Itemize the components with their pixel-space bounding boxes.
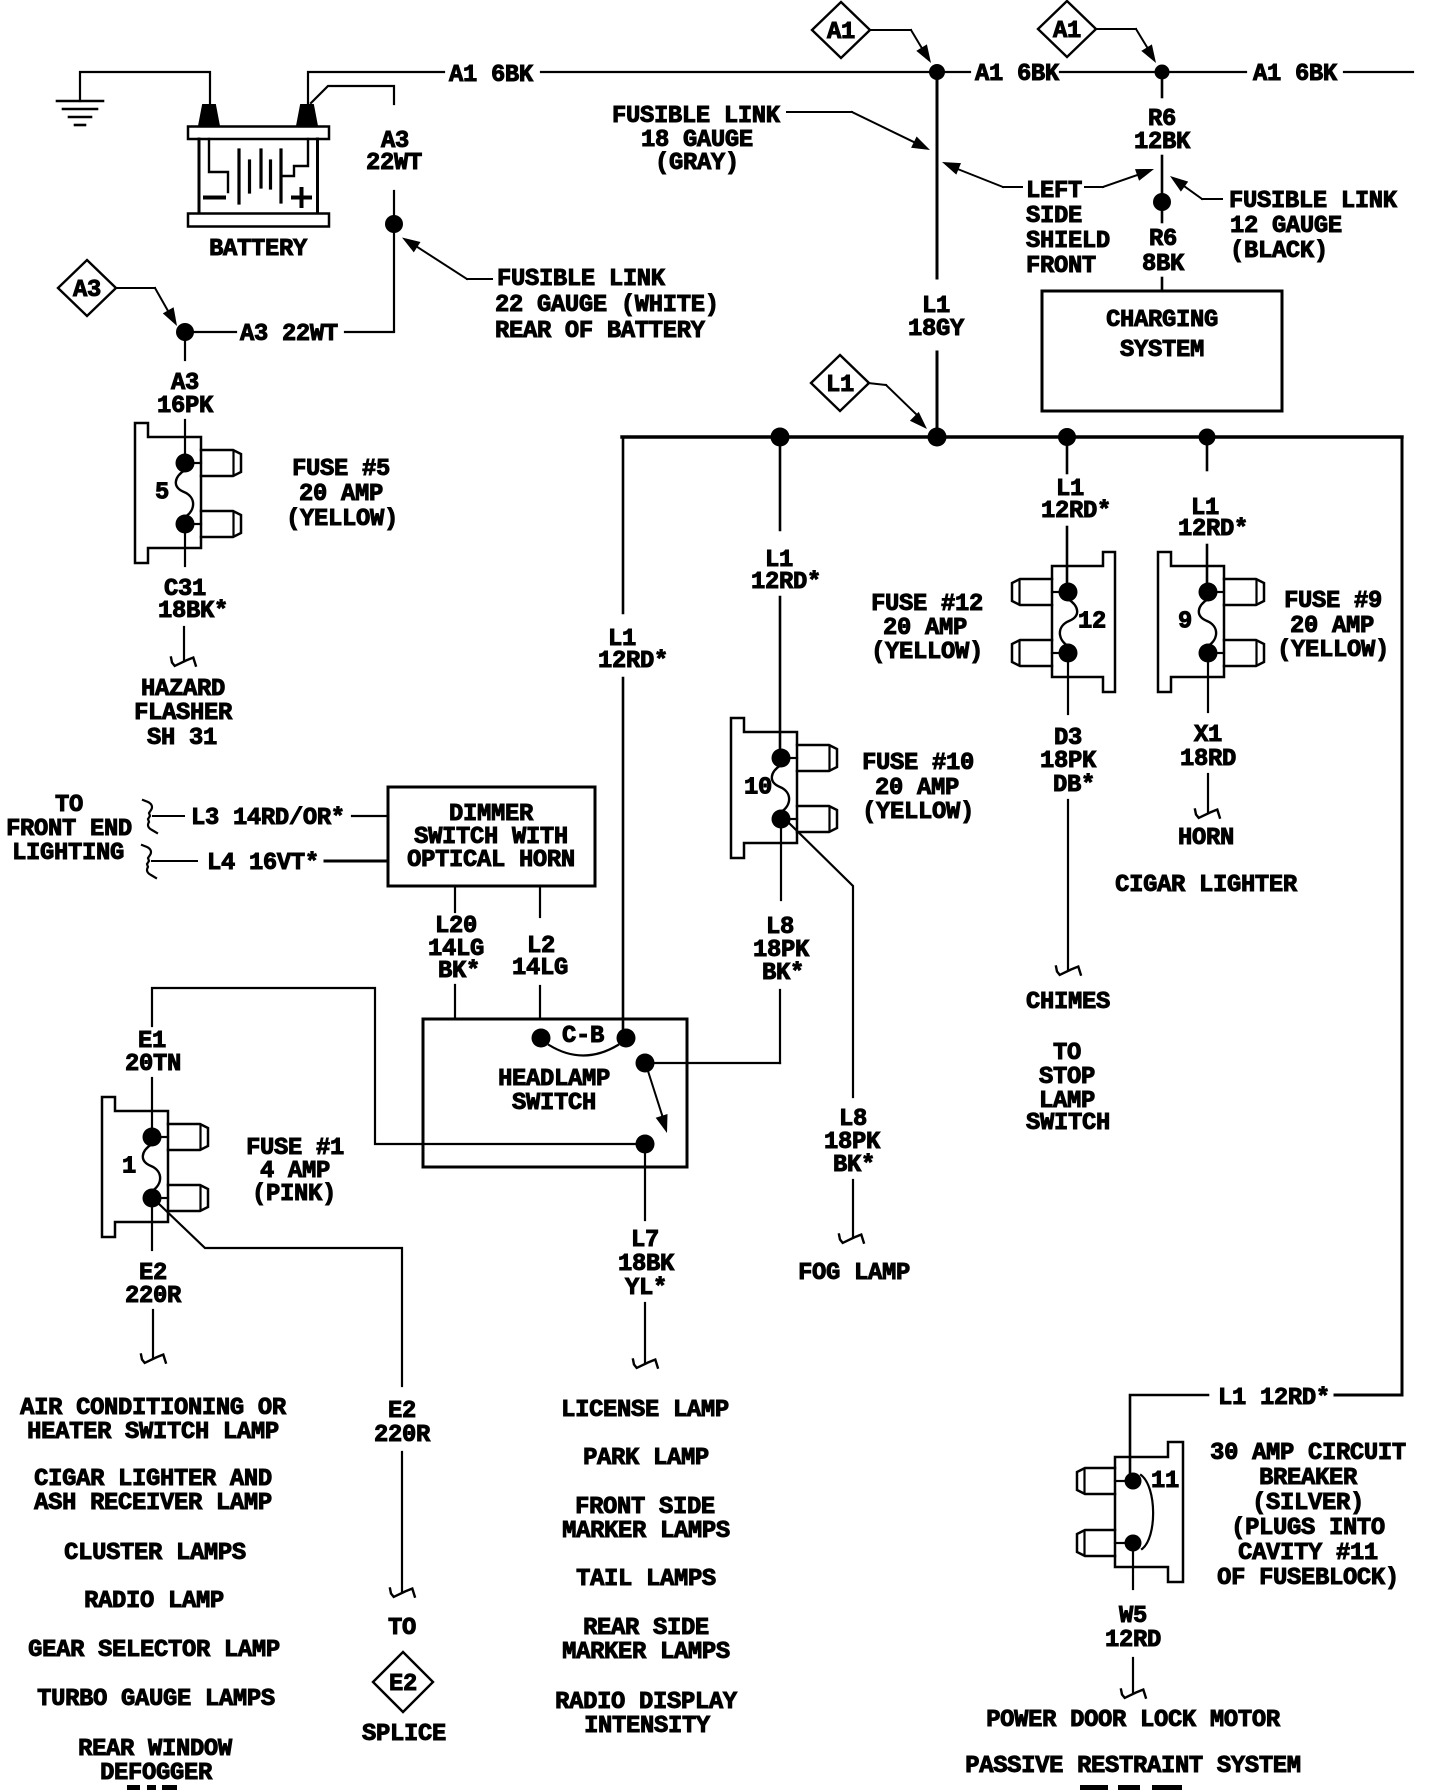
wire (1060, 71, 1155, 73)
svg-text:OF FUSEBLOCK): OF FUSEBLOCK) (1217, 1565, 1399, 1592)
wire (779, 597, 782, 750)
svg-text:AIR CONDITIONING OR: AIR CONDITIONING OR (20, 1395, 287, 1422)
svg-text:LICENSE LAMP: LICENSE LAMP (561, 1397, 729, 1424)
svg-text:18PK: 18PK (1040, 748, 1097, 775)
node A3 junction (176, 323, 194, 341)
svg-text:SIDE: SIDE (1026, 203, 1082, 230)
fuse F9 (1158, 552, 1264, 692)
wire R6 12BK (1161, 79, 1164, 97)
wire L1 12RD middle branch (779, 444, 782, 530)
svg-text:30 AMP CIRCUIT: 30 AMP CIRCUIT (1210, 1440, 1406, 1467)
leader from A1 diamond (870, 30, 931, 63)
svg-text:REAR SIDE: REAR SIDE (583, 1615, 709, 1642)
svg-text:A1 6BK: A1 6BK (1253, 61, 1338, 88)
label hazard flasher (134, 676, 233, 752)
svg-text:CIGAR LIGHTER: CIGAR LIGHTER (1115, 872, 1298, 899)
svg-text:TAIL LAMPS: TAIL LAMPS (576, 1566, 716, 1593)
svg-text:C-B: C-B (562, 1023, 604, 1050)
leader left to R6 line (1085, 169, 1154, 187)
wire break symbol (1121, 1690, 1146, 1698)
svg-text:TURBO GAUGE LAMPS: TURBO GAUGE LAMPS (37, 1686, 275, 1713)
leader fusible link black (1170, 176, 1222, 199)
node switch output (636, 1135, 655, 1154)
node bus junction 1 (771, 428, 790, 447)
node bus junction 4 (1199, 429, 1216, 446)
wire (345, 331, 394, 333)
svg-text:CAVITY #11: CAVITY #11 (1238, 1540, 1378, 1567)
svg-text:SHIELD: SHIELD (1026, 228, 1110, 255)
svg-text:HEADLAMP: HEADLAMP (498, 1066, 610, 1093)
svg-text:PASSIVE RESTRAINT SYSTEM: PASSIVE RESTRAINT SYSTEM (965, 1753, 1301, 1780)
svg-text:14LG: 14LG (512, 955, 568, 982)
node B (617, 1029, 636, 1048)
circuit breaker 11 (1077, 1442, 1183, 1582)
wire (539, 986, 541, 1030)
svg-text:L3 14RD/OR*: L3 14RD/OR* (191, 805, 345, 832)
leader left to L1 line (942, 162, 1022, 187)
svg-text:MARKER LAMPS: MARKER LAMPS (562, 1518, 730, 1545)
wire X1 18RD (1207, 660, 1209, 712)
charging system box (1042, 291, 1282, 411)
fuse F10 (731, 718, 837, 858)
svg-text:1: 1 (122, 1154, 136, 1181)
wire L8 to fog lamp (789, 823, 853, 1097)
svg-text:(YELLOW): (YELLOW) (871, 639, 983, 666)
svg-text:CLUSTER LAMPS: CLUSTER LAMPS (64, 1540, 246, 1567)
svg-text:HAZARD: HAZARD (141, 676, 225, 703)
wire to L8 branch (654, 1062, 780, 1064)
leader fusible link gray (787, 112, 930, 150)
svg-text:12RD*: 12RD* (1041, 498, 1111, 525)
wire (944, 71, 970, 73)
wire down from A3 node (393, 233, 395, 331)
battery (188, 105, 329, 227)
node bus junction 3 (1058, 428, 1076, 446)
lamp list left (20, 1395, 287, 1787)
leader from A3 diamond (117, 288, 177, 326)
wire C31 18BK (184, 532, 186, 566)
headlamp switch box (423, 1019, 687, 1167)
wire (936, 352, 939, 428)
wire (393, 191, 395, 215)
svg-text:20TN: 20TN (125, 1051, 181, 1078)
svg-text:FUSE #9: FUSE #9 (1284, 588, 1382, 615)
svg-text:20 AMP: 20 AMP (883, 615, 967, 642)
wire L20 to headlamp switch (455, 985, 533, 1038)
fuse F5 (135, 423, 241, 563)
svg-text:W5: W5 (1119, 1603, 1147, 1630)
svg-text:FUSIBLE LINK: FUSIBLE LINK (497, 266, 666, 293)
fuse F12 (1012, 552, 1115, 692)
svg-text:12BK: 12BK (1134, 129, 1191, 156)
svg-text:E2: E2 (389, 1671, 417, 1698)
svg-text:(BLACK): (BLACK) (1230, 238, 1328, 265)
svg-text:(YELLOW): (YELLOW) (286, 506, 398, 533)
connector brace L4 (142, 845, 156, 878)
wire D3 (1067, 660, 1069, 714)
svg-text:9: 9 (1178, 609, 1192, 636)
svg-text:18BK: 18BK (618, 1251, 675, 1278)
svg-text:HEATER SWITCH LAMP: HEATER SWITCH LAMP (27, 1419, 279, 1446)
wire (352, 815, 388, 817)
wire battery positive to A3 node (311, 86, 394, 104)
svg-text:FUSIBLE LINK: FUSIBLE LINK (612, 103, 781, 130)
label fuse 1 (246, 1135, 344, 1208)
wire L1 12RD left branch (622, 437, 625, 613)
connector brace L3 (143, 800, 157, 833)
svg-text:A1 6BK: A1 6BK (975, 61, 1060, 88)
svg-text:BK*: BK* (833, 1152, 875, 1179)
fuse F1 (102, 1097, 208, 1237)
svg-text:POWER DOOR LOCK MOTOR: POWER DOOR LOCK MOTOR (986, 1707, 1281, 1734)
wire (1161, 156, 1164, 194)
svg-text:RADIO LAMP: RADIO LAMP (84, 1588, 224, 1615)
svg-text:SPLICE: SPLICE (362, 1721, 446, 1748)
svg-text:SWITCH: SWITCH (1026, 1110, 1110, 1137)
connector L1 diamond (811, 355, 869, 411)
wire L1 12RD branch 3 (1066, 444, 1069, 473)
wire A3 16PK (184, 341, 186, 360)
svg-text:FUSE #5: FUSE #5 (292, 456, 390, 483)
partial text cut at bottom right (1080, 1785, 1108, 1790)
leader from A1 diamond second (1096, 29, 1156, 63)
node A3 22WT junction (385, 215, 403, 233)
svg-text:GEAR SELECTOR LAMP: GEAR SELECTOR LAMP (28, 1637, 280, 1664)
switch contact arc C-B (549, 1045, 618, 1056)
svg-text:BK*: BK* (438, 958, 480, 985)
svg-text:CIGAR LIGHTER AND: CIGAR LIGHTER AND (34, 1466, 272, 1493)
wire (1206, 545, 1209, 584)
wire (852, 1180, 854, 1237)
svg-text:20 AMP: 20 AMP (299, 481, 383, 508)
wire A3 22WT horizontal (194, 331, 236, 333)
partial text cut at bottom left (127, 1785, 140, 1790)
svg-text:FRONT: FRONT (1026, 253, 1096, 280)
svg-text:12: 12 (1078, 609, 1106, 636)
svg-text:L4 16VT*: L4 16VT* (207, 850, 319, 877)
wire break symbol (839, 1235, 864, 1243)
wire L1 18GY (936, 80, 939, 278)
wire break symbol (1056, 967, 1081, 975)
wire (1066, 527, 1069, 584)
svg-text:11: 11 (1151, 1468, 1179, 1495)
svg-text:18RD: 18RD (1180, 746, 1236, 773)
svg-text:FUSIBLE LINK: FUSIBLE LINK (1229, 188, 1398, 215)
label fusible link 12 gauge black (1229, 188, 1398, 265)
svg-text:CHIMES: CHIMES (1026, 989, 1110, 1016)
svg-text:20 AMP: 20 AMP (875, 775, 959, 802)
wire L1 12RD branch 4 (1206, 444, 1209, 470)
label fusible link 22 gauge (495, 266, 719, 345)
leader fusible link white (402, 238, 492, 280)
svg-text:FUSE #10: FUSE #10 (862, 750, 974, 777)
wire (152, 1310, 154, 1358)
svg-text:A1 6BK: A1 6BK (449, 62, 534, 89)
svg-text:STOP: STOP (1039, 1064, 1095, 1091)
svg-text:REAR WINDOW: REAR WINDOW (78, 1736, 233, 1763)
node switch common (636, 1054, 655, 1073)
svg-text:(SILVER): (SILVER) (1252, 1490, 1364, 1517)
svg-text:X1: X1 (1194, 722, 1222, 749)
svg-text:E2: E2 (388, 1398, 416, 1425)
label fuse 9 (1277, 588, 1389, 664)
svg-text:16PK: 16PK (157, 393, 214, 420)
wire (622, 678, 625, 1030)
svg-text:220R: 220R (374, 1422, 431, 1449)
label L7 18BK YL (618, 1227, 675, 1302)
lamp list center (555, 1397, 738, 1740)
wire (151, 1078, 153, 1128)
svg-text:HORN: HORN (1178, 825, 1234, 852)
wire (1161, 278, 1164, 292)
svg-text:R6: R6 (1149, 226, 1177, 253)
svg-text:FRONT SIDE: FRONT SIDE (575, 1494, 715, 1521)
svg-text:10: 10 (744, 775, 772, 802)
connector A1 diamond first (812, 2, 870, 58)
wire break symbol (1195, 810, 1220, 818)
wire (1132, 1658, 1134, 1692)
connector A3 diamond (58, 260, 116, 316)
label left side shield front (1026, 178, 1110, 280)
label to stop lamp switch (1026, 1040, 1110, 1137)
wire (325, 860, 388, 863)
svg-text:BK*: BK* (762, 960, 804, 987)
wire (1169, 71, 1246, 73)
svg-text:RADIO DISPLAY: RADIO DISPLAY (555, 1689, 738, 1716)
label to front end lighting (6, 792, 132, 867)
svg-text:SWITCH: SWITCH (512, 1090, 596, 1117)
connector A1 diamond second (1038, 1, 1096, 57)
wire L20 (454, 886, 456, 912)
svg-text:L1: L1 (826, 372, 854, 399)
svg-text:FOG LAMP: FOG LAMP (798, 1260, 910, 1287)
svg-text:FUSE #12: FUSE #12 (871, 591, 983, 618)
wire (153, 815, 184, 817)
svg-text:L1 12RD*: L1 12RD* (1218, 1385, 1330, 1412)
svg-text:22 GAUGE (WHITE): 22 GAUGE (WHITE) (495, 292, 719, 319)
svg-text:18BK*: 18BK* (158, 598, 228, 625)
svg-text:LIGHTING: LIGHTING (12, 840, 124, 867)
ground (57, 101, 103, 125)
wire (1207, 774, 1209, 812)
svg-text:A1: A1 (1053, 18, 1081, 45)
svg-text:DEFOGGER: DEFOGGER (100, 1760, 213, 1787)
wire (779, 990, 781, 1063)
label fusible link 18 gauge gray (612, 103, 781, 177)
svg-text:A1: A1 (827, 19, 855, 46)
wire (1067, 800, 1069, 969)
connector E2 splice diamond (373, 1652, 433, 1712)
svg-text:MARKER LAMPS: MARKER LAMPS (562, 1639, 730, 1666)
label fuse 10 (862, 750, 974, 826)
svg-text:L7: L7 (631, 1227, 659, 1254)
wire E2 to splice (158, 1203, 402, 1386)
wire break symbol (171, 658, 196, 666)
svg-text:DB*: DB* (1053, 772, 1095, 799)
svg-text:BATTERY: BATTERY (209, 236, 308, 263)
svg-text:REAR OF BATTERY: REAR OF BATTERY (495, 318, 706, 345)
wire (183, 627, 185, 661)
headlamp switch label (498, 1066, 610, 1117)
svg-text:12RD*: 12RD* (598, 648, 668, 675)
wire L2 (539, 886, 541, 917)
svg-text:YL*: YL* (625, 1275, 667, 1302)
node A1 junction left (929, 64, 945, 80)
svg-text:12RD*: 12RD* (1178, 516, 1248, 543)
svg-text:BREAKER: BREAKER (1259, 1465, 1358, 1492)
wire A1 6BK from battery positive (308, 72, 444, 105)
svg-text:TO: TO (1053, 1040, 1081, 1067)
svg-text:8BK: 8BK (1142, 251, 1185, 278)
node C (532, 1029, 551, 1048)
svg-text:FLASHER: FLASHER (134, 700, 233, 727)
wire (184, 420, 186, 455)
wire (1344, 71, 1413, 73)
wire (152, 860, 197, 862)
svg-text:PARK LAMP: PARK LAMP (583, 1445, 709, 1472)
svg-text:LEFT: LEFT (1026, 178, 1082, 205)
svg-text:A3: A3 (73, 277, 101, 304)
svg-text:(PINK): (PINK) (252, 1181, 336, 1208)
svg-text:OPTICAL HORN: OPTICAL HORN (407, 847, 575, 874)
node A1 junction right (1155, 65, 1170, 80)
svg-text:SYSTEM: SYSTEM (1120, 337, 1204, 364)
wire from fuse 1 circuit (152, 988, 636, 1144)
leader from L1 diamond (868, 383, 927, 429)
svg-text:(YELLOW): (YELLOW) (862, 799, 974, 826)
node bus junction 2 (928, 428, 947, 447)
dimmer switch box (388, 787, 595, 886)
wire break symbol (390, 1589, 415, 1597)
wire main L1 bus (622, 435, 1402, 438)
wire L7 18BK YL (644, 1153, 646, 1220)
svg-text:22WT: 22WT (366, 150, 422, 177)
svg-text:12 GAUGE: 12 GAUGE (1230, 213, 1342, 240)
wire L8 down (780, 827, 782, 900)
switch wiper arrow (648, 1071, 663, 1118)
svg-text:220R: 220R (125, 1283, 182, 1310)
wire ground to battery negative (80, 72, 210, 104)
wire R6 8BK (1161, 211, 1164, 222)
svg-text:(GRAY): (GRAY) (655, 150, 739, 177)
svg-text:FRONT END: FRONT END (6, 816, 132, 843)
wire (644, 1303, 646, 1362)
svg-text:ASH RECEIVER LAMP: ASH RECEIVER LAMP (34, 1490, 272, 1517)
svg-text:18GY: 18GY (908, 316, 965, 343)
wire break symbol (141, 1355, 166, 1363)
svg-text:SH 31: SH 31 (147, 725, 217, 752)
wire break symbol (633, 1360, 658, 1368)
svg-text:(YELLOW): (YELLOW) (1277, 637, 1389, 664)
svg-text:12RD: 12RD (1105, 1627, 1161, 1654)
svg-text:TO: TO (388, 1615, 416, 1642)
wire (1130, 1395, 1208, 1473)
wire A1 6BK to junction (541, 71, 929, 73)
wire W5 12RD (1132, 1551, 1134, 1589)
svg-text:20 AMP: 20 AMP (1290, 613, 1374, 640)
label fuse 5 (286, 456, 398, 533)
label 30 amp circuit breaker (1210, 1440, 1406, 1592)
wire E2 down (151, 1207, 153, 1250)
label fuse 12 (871, 591, 983, 666)
wire L1 right edge down (1335, 437, 1402, 1395)
svg-text:TO: TO (55, 792, 83, 819)
node R6 junction (1153, 193, 1171, 211)
svg-text:A3 22WT: A3 22WT (240, 321, 338, 348)
svg-text:12RD*: 12RD* (751, 569, 821, 596)
svg-text:5: 5 (155, 480, 169, 507)
svg-text:INTENSITY: INTENSITY (584, 1713, 711, 1740)
wire (401, 1452, 403, 1592)
svg-text:CHARGING: CHARGING (1106, 307, 1218, 334)
svg-text:(PLUGS INTO: (PLUGS INTO (1231, 1515, 1385, 1542)
